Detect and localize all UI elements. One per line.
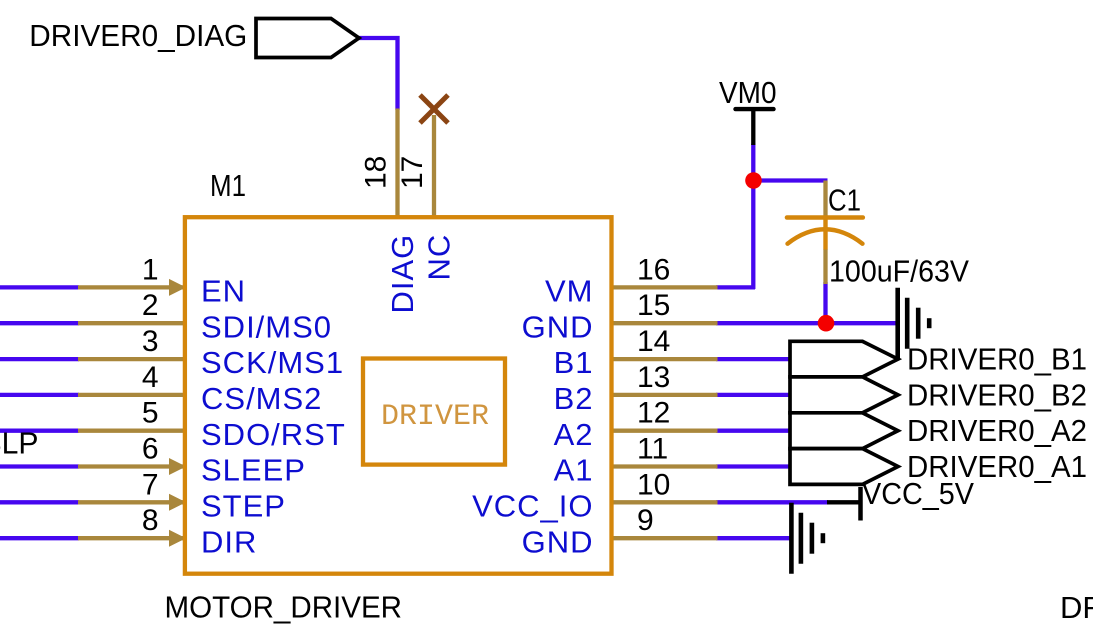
svg-text:4: 4 [142,361,159,394]
svg-text:13: 13 [637,361,670,394]
svg-text:A1: A1 [554,453,594,488]
svg-text:SDI/MS0: SDI/MS0 [201,309,332,344]
svg-text:EN: EN [201,274,246,309]
svg-text:11: 11 [637,433,668,466]
svg-text:17: 17 [396,156,429,189]
svg-text:B2: B2 [554,381,594,416]
svg-text:GND: GND [522,309,594,344]
svg-text:2: 2 [142,289,159,322]
svg-text:5: 5 [142,397,159,430]
svg-text:6: 6 [142,433,159,466]
svg-text:C1: C1 [828,183,861,218]
svg-text:3: 3 [142,325,159,358]
svg-text:100uF/63V: 100uF/63V [829,254,969,289]
svg-text:1: 1 [142,253,159,286]
svg-text:SDO/RST: SDO/RST [201,417,346,452]
svg-text:MOTOR_DRIVER: MOTOR_DRIVER [165,590,403,625]
svg-text:18: 18 [360,156,393,189]
svg-text:VCC_IO: VCC_IO [472,488,593,523]
svg-text:B1: B1 [554,345,594,380]
svg-text:M1: M1 [210,168,246,203]
svg-text:NC: NC [422,234,457,281]
svg-text:DRIVER0_B1: DRIVER0_B1 [907,342,1087,377]
svg-text:DRIVER: DRIVER [381,400,489,434]
svg-text:8: 8 [142,504,159,537]
svg-text:VM0: VM0 [719,75,777,110]
svg-text:VM: VM [545,274,594,309]
svg-text:10: 10 [637,468,670,501]
svg-text:7: 7 [142,468,159,501]
svg-text:CS/MS2: CS/MS2 [201,381,322,416]
svg-text:SCK/MS1: SCK/MS1 [201,345,344,380]
svg-text:DRIVER0_A2: DRIVER0_A2 [907,413,1087,448]
svg-text:9: 9 [637,504,654,537]
svg-text:SLP: SLP [0,426,39,461]
svg-text:GND: GND [522,524,594,559]
svg-text:DIR: DIR [201,524,257,559]
svg-text:DIAG: DIAG [385,234,420,314]
svg-text:DR: DR [1060,590,1093,625]
svg-text:DRIVER0_DIAG: DRIVER0_DIAG [29,18,247,53]
svg-text:16: 16 [637,253,670,286]
svg-text:14: 14 [637,325,670,358]
svg-text:12: 12 [637,397,670,430]
svg-text:A2: A2 [554,417,594,452]
svg-text:15: 15 [637,289,670,322]
svg-text:SLEEP: SLEEP [201,453,306,488]
svg-text:STEP: STEP [201,488,286,523]
svg-text:DRIVER0_A1: DRIVER0_A1 [907,449,1087,484]
svg-text:DRIVER0_B2: DRIVER0_B2 [907,377,1087,412]
